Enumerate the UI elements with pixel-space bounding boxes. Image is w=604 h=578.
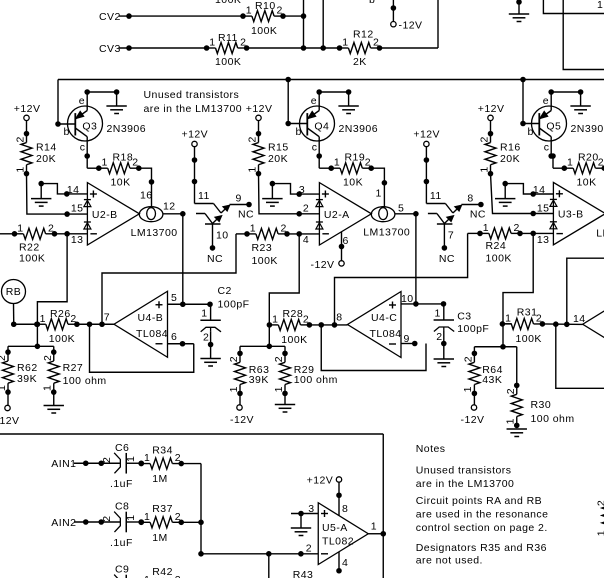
- svg-text:1: 1: [125, 514, 137, 520]
- svg-text:2: 2: [281, 222, 287, 234]
- svg-text:1: 1: [342, 37, 348, 49]
- svg-text:C6: C6: [115, 442, 129, 454]
- svg-text:2: 2: [479, 136, 491, 142]
- svg-text:15: 15: [71, 203, 84, 215]
- svg-text:LM13700: LM13700: [363, 226, 410, 238]
- svg-text:20K: 20K: [500, 153, 520, 165]
- svg-text:U4-B: U4-B: [138, 312, 164, 324]
- svg-text:100K: 100K: [516, 333, 542, 345]
- svg-text:R42: R42: [152, 566, 173, 578]
- svg-text:2: 2: [505, 388, 517, 394]
- svg-text:43K: 43K: [482, 374, 502, 386]
- svg-text:1: 1: [435, 307, 441, 319]
- svg-text:2: 2: [0, 355, 8, 361]
- svg-text:U4-C: U4-C: [371, 312, 397, 324]
- svg-text:10K: 10K: [577, 177, 597, 189]
- svg-text:7: 7: [104, 312, 110, 324]
- svg-text:6: 6: [171, 331, 177, 343]
- svg-text:2: 2: [303, 313, 309, 325]
- svg-text:Circuit points RA and RB: Circuit points RA and RB: [416, 495, 542, 507]
- svg-text:2: 2: [306, 543, 312, 555]
- svg-text:CV3: CV3: [99, 43, 121, 55]
- svg-text:4: 4: [303, 234, 309, 246]
- svg-text:10K: 10K: [111, 177, 131, 189]
- svg-text:2: 2: [132, 157, 138, 169]
- svg-text:1: 1: [246, 166, 258, 172]
- svg-text:2: 2: [101, 515, 113, 521]
- svg-text:4: 4: [342, 557, 348, 569]
- svg-text:C8: C8: [115, 501, 129, 513]
- svg-text:c: c: [544, 142, 550, 154]
- svg-text:2: 2: [15, 136, 27, 142]
- svg-text:1: 1: [505, 418, 517, 424]
- svg-text:are not used.: are not used.: [416, 554, 483, 566]
- svg-text:2: 2: [365, 157, 371, 169]
- svg-text:e: e: [543, 95, 549, 107]
- svg-text:2: 2: [70, 313, 76, 325]
- svg-text:Designators R35 and R36: Designators R35 and R36: [416, 542, 547, 554]
- svg-text:+12V: +12V: [182, 129, 209, 141]
- svg-text:2: 2: [596, 500, 604, 506]
- svg-text:RB: RB: [6, 286, 22, 298]
- svg-text:C2: C2: [218, 285, 232, 297]
- svg-text:2: 2: [247, 136, 259, 142]
- svg-text:7: 7: [448, 229, 454, 241]
- svg-text:b: b: [296, 126, 302, 138]
- svg-text:13: 13: [537, 234, 550, 246]
- svg-text:100pF: 100pF: [218, 299, 250, 311]
- svg-text:R37: R37: [152, 503, 173, 515]
- svg-text:1: 1: [462, 386, 474, 392]
- svg-text:1: 1: [209, 37, 215, 49]
- svg-text:LM13700: LM13700: [596, 228, 604, 240]
- svg-text:16: 16: [140, 189, 153, 201]
- svg-text:R11: R11: [218, 32, 238, 44]
- svg-text:2N3906: 2N3906: [571, 123, 604, 135]
- svg-text:+12V: +12V: [14, 103, 41, 115]
- svg-text:2: 2: [228, 356, 240, 362]
- svg-text:R19: R19: [345, 152, 366, 164]
- svg-text:1M: 1M: [152, 532, 168, 544]
- svg-text:-12V: -12V: [461, 414, 485, 426]
- svg-text:Q3: Q3: [82, 121, 97, 133]
- svg-text:100K: 100K: [281, 334, 307, 346]
- svg-text:TL084: TL084: [136, 328, 168, 340]
- svg-text:1: 1: [17, 222, 23, 234]
- svg-text:1: 1: [144, 452, 150, 464]
- svg-text:NC: NC: [207, 253, 223, 265]
- svg-text:+12V: +12V: [478, 103, 505, 115]
- svg-text:-12V: -12V: [311, 259, 335, 271]
- svg-text:2N3906: 2N3906: [107, 123, 146, 135]
- svg-text:C9: C9: [115, 564, 129, 576]
- svg-text:-12V: -12V: [0, 415, 19, 427]
- svg-text:11: 11: [430, 190, 442, 202]
- svg-text:CV2: CV2: [99, 11, 121, 23]
- svg-text:15: 15: [537, 202, 550, 214]
- svg-text:2: 2: [463, 356, 475, 362]
- svg-text:1: 1: [144, 574, 150, 578]
- svg-text:2: 2: [303, 203, 309, 215]
- svg-text:2: 2: [175, 452, 181, 464]
- svg-text:R22: R22: [19, 241, 40, 253]
- svg-text:AIN1: AIN1: [51, 458, 76, 470]
- svg-text:R12: R12: [353, 29, 374, 41]
- svg-text:100K: 100K: [215, 0, 241, 6]
- svg-text:2: 2: [203, 331, 209, 343]
- svg-text:1: 1: [376, 188, 382, 200]
- svg-text:1: 1: [250, 222, 256, 234]
- svg-text:1: 1: [14, 166, 26, 172]
- svg-text:100K: 100K: [251, 25, 277, 37]
- svg-text:2N3906: 2N3906: [339, 123, 378, 135]
- svg-text:are in the LM13700: are in the LM13700: [416, 478, 515, 490]
- svg-text:1: 1: [273, 386, 285, 392]
- svg-text:U5-A: U5-A: [322, 522, 348, 534]
- svg-text:100K: 100K: [252, 255, 278, 267]
- svg-text:13: 13: [71, 234, 84, 246]
- svg-text:5: 5: [171, 292, 177, 304]
- svg-text:8: 8: [467, 193, 473, 205]
- svg-text:2: 2: [514, 222, 520, 234]
- svg-text:1: 1: [334, 157, 340, 169]
- svg-text:TL082: TL082: [322, 536, 354, 548]
- svg-text:1: 1: [228, 386, 240, 392]
- svg-text:12: 12: [163, 200, 176, 212]
- svg-text:39K: 39K: [17, 373, 37, 385]
- svg-text:1: 1: [0, 385, 8, 391]
- svg-text:NC: NC: [439, 253, 455, 265]
- svg-text:9: 9: [236, 193, 242, 205]
- svg-text:U2-B: U2-B: [92, 209, 118, 221]
- svg-text:Unused transistors: Unused transistors: [416, 464, 512, 476]
- svg-text:1: 1: [42, 385, 54, 391]
- svg-text:100K: 100K: [19, 253, 45, 265]
- svg-text:R31: R31: [517, 307, 538, 319]
- svg-text:100K: 100K: [486, 253, 512, 265]
- svg-text:c: c: [312, 142, 318, 154]
- svg-text:+12V: +12V: [413, 129, 440, 141]
- svg-text:-12V: -12V: [230, 414, 254, 426]
- svg-text:3: 3: [308, 503, 314, 515]
- svg-text:1M: 1M: [152, 473, 168, 485]
- svg-text:are used in the resonance: are used in the resonance: [416, 508, 549, 520]
- svg-text:Unused transistors: Unused transistors: [144, 89, 240, 101]
- svg-text:1: 1: [595, 530, 604, 536]
- svg-text:1: 1: [144, 511, 150, 523]
- svg-text:1: 1: [505, 312, 511, 324]
- svg-text:100K: 100K: [49, 333, 75, 345]
- svg-text:1: 1: [371, 521, 377, 533]
- svg-text:1: 1: [483, 222, 489, 234]
- svg-text:NC: NC: [238, 209, 254, 221]
- svg-text:1: 1: [272, 313, 278, 325]
- svg-text:b: b: [64, 126, 70, 138]
- svg-text:-12V: -12V: [399, 20, 423, 32]
- svg-text:100K: 100K: [215, 56, 241, 68]
- svg-text:LM13700: LM13700: [131, 227, 178, 239]
- svg-text:3: 3: [299, 184, 305, 196]
- svg-text:1: 1: [478, 166, 490, 172]
- svg-text:6: 6: [343, 235, 349, 247]
- svg-text:.1uF: .1uF: [110, 537, 133, 549]
- svg-text:+12V: +12V: [307, 474, 334, 486]
- svg-text:1: 1: [125, 456, 137, 462]
- svg-text:R18: R18: [113, 152, 134, 164]
- svg-text:R23: R23: [252, 242, 273, 254]
- svg-text:are in the LM13700: are in the LM13700: [144, 103, 243, 115]
- svg-text:R26: R26: [50, 308, 71, 320]
- svg-text:b: b: [369, 0, 375, 6]
- svg-text:2: 2: [48, 222, 54, 234]
- svg-text:U2-A: U2-A: [324, 209, 350, 221]
- svg-text:R24: R24: [486, 240, 507, 252]
- svg-text:TL084: TL084: [370, 328, 402, 340]
- svg-text:e: e: [311, 95, 317, 107]
- svg-text:C3: C3: [457, 310, 471, 322]
- svg-text:R27: R27: [63, 362, 84, 374]
- svg-text:R34: R34: [152, 444, 173, 456]
- svg-text:R30: R30: [531, 399, 552, 411]
- svg-text:1: 1: [597, 0, 603, 11]
- svg-text:2: 2: [373, 37, 379, 49]
- svg-text:1: 1: [567, 157, 573, 169]
- svg-text:1: 1: [201, 308, 207, 320]
- svg-text:R10: R10: [255, 0, 276, 12]
- svg-text:2: 2: [240, 37, 246, 49]
- svg-text:Q5: Q5: [546, 121, 561, 133]
- svg-text:10K: 10K: [343, 177, 363, 189]
- svg-text:control section on page 2.: control section on page 2.: [416, 522, 548, 534]
- svg-text:+12V: +12V: [246, 103, 273, 115]
- svg-text:1: 1: [102, 157, 108, 169]
- svg-text:14: 14: [67, 184, 80, 196]
- svg-text:AIN2: AIN2: [51, 517, 76, 529]
- svg-text:39K: 39K: [249, 374, 269, 386]
- svg-text:c: c: [80, 142, 86, 154]
- svg-text:R20: R20: [578, 152, 599, 164]
- svg-text:2: 2: [175, 511, 181, 523]
- svg-text:100 ohm: 100 ohm: [294, 374, 338, 386]
- svg-text:100 ohm: 100 ohm: [531, 413, 575, 425]
- svg-text:2K: 2K: [353, 56, 367, 68]
- svg-text:8: 8: [336, 312, 342, 324]
- svg-text:2: 2: [42, 355, 54, 361]
- svg-text:Q4: Q4: [314, 121, 329, 133]
- svg-text:10: 10: [216, 229, 229, 241]
- svg-text:R28: R28: [283, 308, 304, 320]
- svg-text:10: 10: [401, 293, 414, 305]
- svg-text:R43: R43: [293, 569, 314, 578]
- svg-text:2: 2: [277, 5, 283, 17]
- svg-text:2: 2: [598, 157, 604, 169]
- svg-text:100pF: 100pF: [457, 323, 489, 335]
- svg-text:14: 14: [533, 184, 546, 196]
- svg-text:100 ohm: 100 ohm: [63, 375, 107, 387]
- svg-text:11: 11: [198, 190, 210, 202]
- svg-text:2: 2: [273, 356, 285, 362]
- svg-text:Notes: Notes: [416, 443, 446, 455]
- svg-text:5: 5: [398, 203, 404, 215]
- svg-text:2: 2: [436, 331, 442, 343]
- svg-text:e: e: [79, 95, 85, 107]
- svg-text:2: 2: [175, 574, 181, 578]
- svg-text:20K: 20K: [268, 153, 288, 165]
- svg-text:8: 8: [342, 503, 348, 515]
- svg-text:1: 1: [246, 5, 252, 17]
- svg-text:b: b: [528, 126, 534, 138]
- svg-text:20K: 20K: [36, 153, 56, 165]
- svg-text:U3-B: U3-B: [558, 209, 584, 221]
- svg-text:NC: NC: [470, 209, 486, 221]
- svg-text:.1uF: .1uF: [110, 478, 133, 490]
- svg-text:1: 1: [40, 313, 46, 325]
- svg-text:2: 2: [101, 457, 113, 463]
